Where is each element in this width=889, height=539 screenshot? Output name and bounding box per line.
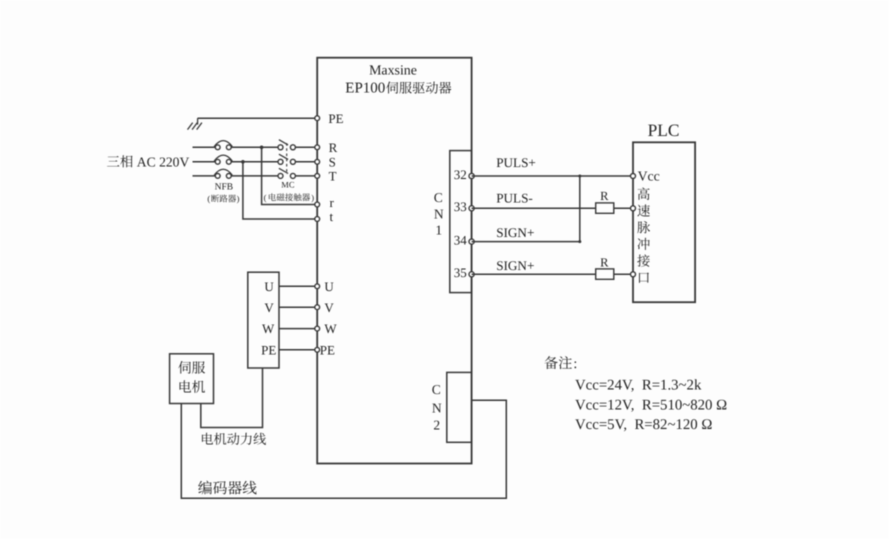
svg-text:R: R — [600, 255, 609, 269]
label: 编码器线 — [198, 481, 256, 495]
svg-text:SIGN+: SIGN+ — [496, 258, 534, 273]
svg-text::: : — [573, 356, 577, 372]
PLC box — [633, 142, 695, 302]
svg-text:2: 2 — [433, 418, 440, 433]
terminal V — [315, 300, 335, 315]
svg-text:Maxsine: Maxsine — [369, 63, 417, 78]
label SIGN+ (pin35) — [496, 258, 534, 273]
breaker NFB pole S — [214, 155, 232, 164]
svg-text:r: r — [330, 195, 335, 210]
contactor MC pole T — [278, 168, 295, 178]
svg-text:R: R — [600, 189, 609, 203]
svg-text:32: 32 — [454, 167, 467, 182]
note line 3 — [575, 417, 712, 433]
svg-text:PULS+: PULS+ — [496, 155, 536, 170]
terminal T — [315, 169, 337, 184]
note line 2 — [575, 398, 727, 414]
svg-text:PULS-: PULS- — [496, 190, 533, 205]
svg-text:PE: PE — [328, 111, 343, 126]
junction on PULS+ wire — [578, 175, 581, 178]
svg-text:N: N — [432, 401, 442, 416]
svg-text:R: R — [329, 140, 338, 155]
ground — [188, 118, 202, 129]
label: PLC — [648, 120, 680, 140]
svg-text:W: W — [324, 321, 337, 336]
label PULS+ — [496, 155, 536, 170]
note: 备注 — [544, 356, 577, 372]
wire phase T — [193, 175, 318, 177]
svg-text:Vcc: Vcc — [638, 169, 660, 184]
wire: ground to PE terminal — [198, 117, 318, 119]
svg-text:AC 220V: AC 220V — [137, 154, 190, 169]
pin 35 — [454, 265, 474, 280]
resistor R1 — [596, 189, 614, 213]
wire phase S — [193, 161, 318, 163]
label: EP100伺服驱动器 — [345, 81, 451, 97]
svg-text:): ) — [311, 192, 314, 202]
wire PULS+ (pin32 to Vcc) — [472, 175, 633, 177]
wire: encoder line (motor to CN2) — [181, 400, 506, 498]
svg-text:W: W — [262, 321, 275, 336]
svg-text:PLC: PLC — [648, 120, 680, 140]
connector CN2 — [447, 372, 472, 442]
svg-text:C: C — [434, 190, 443, 205]
servo driver box U1 (Maxsine EP100) — [317, 58, 471, 464]
junction on phase S — [241, 160, 245, 164]
label: 高速脉冲接口 (vertical) — [637, 188, 650, 283]
label PULS- — [496, 190, 533, 205]
svg-text:C: C — [432, 382, 441, 397]
svg-text:Vcc=12V, R=510~820 Ω: Vcc=12V, R=510~820 Ω — [575, 398, 727, 414]
wire SIGN+ (pin34 to junction riser) — [472, 241, 580, 243]
svg-text:Vcc=24V, R=1.3~2k: Vcc=24V, R=1.3~2k — [575, 377, 702, 393]
wire W (connector to driver) — [279, 328, 317, 330]
terminal PULS- (PLC) — [631, 206, 636, 211]
terminal W — [315, 321, 338, 336]
svg-text:S: S — [329, 154, 336, 169]
svg-text:PE: PE — [261, 342, 276, 357]
pin 33 — [454, 199, 474, 214]
svg-text:N: N — [434, 206, 444, 221]
contactor MC linkage (dashed) — [286, 143, 288, 174]
svg-text:V: V — [324, 300, 334, 315]
wire: motor power line — [201, 368, 263, 428]
svg-text:34: 34 — [454, 232, 468, 247]
wire U (connector to driver) — [279, 285, 317, 287]
contactor MC pole S — [278, 154, 295, 164]
label SIGN+ (pin34) — [496, 225, 534, 240]
terminal Vcc (PLC) — [631, 169, 660, 184]
terminal SIGN (PLC) — [631, 272, 636, 277]
terminal S — [315, 154, 336, 169]
svg-text:NFB: NFB — [215, 182, 233, 192]
label: MC （电磁接触器） — [264, 179, 315, 202]
terminal r — [315, 195, 335, 210]
pin 34 — [454, 232, 474, 247]
pin 32 — [454, 167, 474, 182]
label: Maxsine — [369, 63, 417, 78]
servo motor M1 (伺服电机) — [170, 354, 214, 404]
svg-text:Vcc=5V, R=82~120 Ω: Vcc=5V, R=82~120 Ω — [575, 417, 712, 433]
junction at pin34 wire corner — [578, 240, 581, 243]
wire: phase S junction to terminal t — [243, 162, 317, 219]
svg-text:V: V — [264, 300, 274, 315]
wire PE (connector to driver) — [279, 349, 317, 351]
terminal PE — [315, 111, 344, 126]
junction on phase R — [260, 146, 264, 150]
breaker NFB pole R — [214, 141, 232, 150]
breaker NFB pole T — [214, 169, 232, 178]
wire SIGN+ (pin35 to R2) — [472, 273, 633, 275]
wire: riser pin34 to PULS+ net — [579, 176, 581, 242]
terminal R — [315, 140, 338, 155]
label: 电机动力线 — [202, 433, 266, 445]
svg-text:(: ( — [207, 194, 210, 204]
svg-text:SIGN+: SIGN+ — [496, 225, 534, 240]
label: 三相 AC 220V — [107, 154, 189, 169]
label: NFB (断路器) — [207, 182, 239, 203]
svg-text:t: t — [330, 209, 334, 224]
svg-text:1: 1 — [435, 223, 442, 238]
svg-text:33: 33 — [454, 199, 467, 214]
motor cable connector box — [248, 272, 279, 368]
note line 1 — [575, 377, 702, 393]
svg-text:EP100: EP100 — [345, 81, 385, 97]
wire V (connector to driver) — [279, 306, 317, 308]
svg-text:MC: MC — [281, 179, 295, 189]
wire: phase R junction to terminal r — [262, 147, 318, 204]
resistor R2 — [596, 255, 614, 279]
svg-text:PE: PE — [320, 342, 335, 357]
svg-text:U: U — [324, 279, 334, 294]
label: C N 1 — [434, 190, 444, 238]
contactor MC pole R — [278, 140, 295, 150]
svg-text:): ) — [237, 194, 240, 204]
label: C N 2 — [432, 382, 442, 433]
svg-text:35: 35 — [454, 265, 467, 280]
terminal t — [315, 209, 334, 224]
wire phase R — [193, 146, 318, 148]
svg-text:(: ( — [264, 192, 267, 202]
connector CN1 — [450, 151, 472, 293]
svg-text:T: T — [329, 169, 337, 184]
wire PULS- (pin33 to R1) — [472, 207, 633, 209]
terminal PE (motor) — [315, 342, 335, 357]
svg-text:U: U — [264, 279, 274, 294]
terminal U — [315, 279, 335, 294]
